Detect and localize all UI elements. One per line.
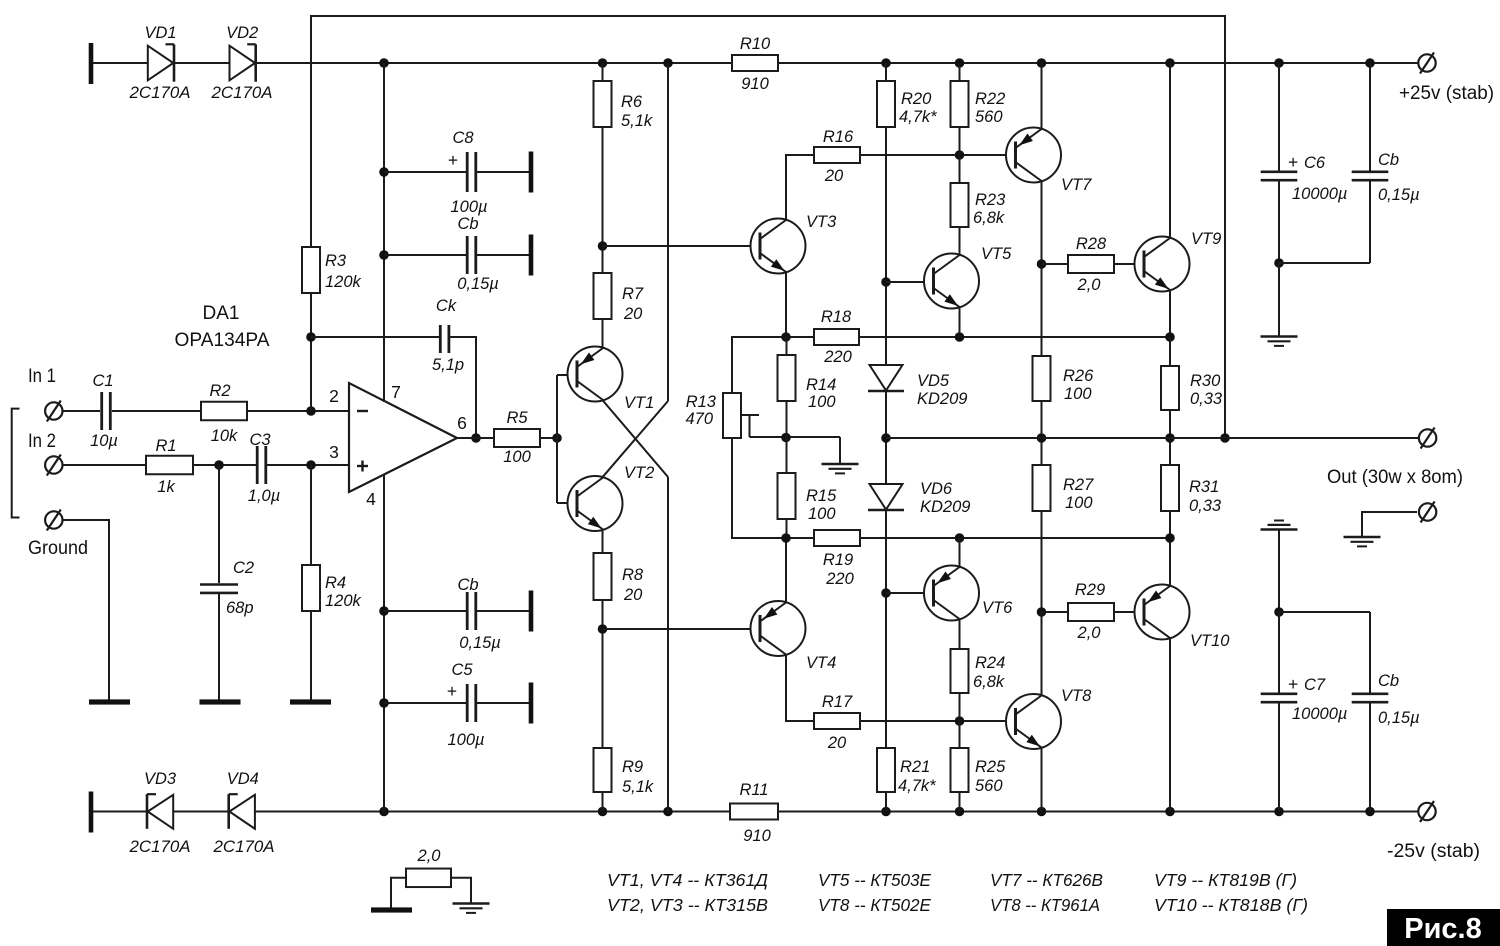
node out-R30 xyxy=(1165,433,1175,443)
terminal bar Cb lower xyxy=(529,591,534,632)
svg-text:Out (30w x 8om): Out (30w x 8om) xyxy=(1327,467,1463,488)
svg-text:VT2, VT3 -- КТ315В: VT2, VT3 -- КТ315В xyxy=(607,895,768,915)
node pin2 xyxy=(306,406,316,416)
svg-text:R8: R8 xyxy=(622,566,644,584)
svg-text:OPA134PA: OPA134PA xyxy=(175,330,270,351)
svg-text:100: 100 xyxy=(1065,494,1093,512)
wire +25V rail right section xyxy=(778,62,1418,64)
wire R29-VT10 xyxy=(1114,611,1144,613)
node Cb2-left xyxy=(379,606,389,616)
svg-text:VT10: VT10 xyxy=(1190,632,1230,650)
svg-text:10000µ: 10000µ xyxy=(1292,185,1347,203)
junction brail-VT10 xyxy=(1165,807,1175,817)
resistor R26 xyxy=(1033,356,1051,401)
wire R30 top xyxy=(1169,337,1171,366)
resistor R25 xyxy=(951,748,969,792)
wire VT6 base xyxy=(886,592,934,594)
svg-text:KD209: KD209 xyxy=(920,498,970,516)
svg-text:Ck: Ck xyxy=(436,297,457,315)
junction rail-Cb xyxy=(1365,58,1375,68)
node pin3 xyxy=(306,460,316,470)
wire C1-R2 xyxy=(112,410,201,412)
transistor VT10 xyxy=(1135,585,1190,640)
svg-text:VT9 -- КТ819В (Г): VT9 -- КТ819В (Г) xyxy=(1154,870,1297,890)
svg-text:100µ: 100µ xyxy=(447,731,484,749)
junction brail-pin4col xyxy=(379,807,389,817)
svg-text:220: 220 xyxy=(825,570,854,588)
node out-R26 xyxy=(1037,433,1047,443)
svg-text:VT1, VT4 -- КТ361Д: VT1, VT4 -- КТ361Д xyxy=(607,870,768,890)
resistor R14 xyxy=(778,355,796,401)
wire Cb3 bottom xyxy=(1369,181,1371,263)
wire R23-VT5 xyxy=(959,227,961,254)
svg-text:VT10 -- КТ818В (Г): VT10 -- КТ818В (Г) xyxy=(1154,895,1308,915)
wire Cb3 top xyxy=(1369,63,1371,171)
wire cross VT2 collector xyxy=(603,401,668,477)
svg-text:2,0: 2,0 xyxy=(417,847,442,865)
resistor R27 xyxy=(1033,465,1051,511)
wire pin3-R4 xyxy=(310,465,312,565)
svg-text:6,8k: 6,8k xyxy=(973,673,1005,691)
svg-text:0,33: 0,33 xyxy=(1189,497,1222,515)
transistor VT2 xyxy=(568,476,623,531)
wire -25V rail right section xyxy=(778,811,1418,813)
wire VT8 collector xyxy=(1041,612,1043,695)
resistor R18 xyxy=(814,329,859,345)
wire R21-rail xyxy=(885,792,887,812)
wire VT7 emitter xyxy=(1041,181,1043,356)
node R18-R14-VT3e xyxy=(781,332,791,342)
svg-text:2C170A: 2C170A xyxy=(128,84,190,102)
wire VT5 emitter xyxy=(959,308,961,337)
svg-text:R18: R18 xyxy=(821,308,852,326)
svg-text:Cb: Cb xyxy=(1378,672,1399,690)
wire VD5-VD6 xyxy=(885,391,887,484)
svg-text:910: 910 xyxy=(743,827,771,845)
wire VT4 collector xyxy=(786,655,814,721)
svg-text:2C170A: 2C170A xyxy=(210,84,272,102)
transistor VT5 xyxy=(924,254,979,309)
wire R17-VT8base xyxy=(860,720,1015,722)
svg-text:VT9: VT9 xyxy=(1191,230,1221,248)
svg-text:R13: R13 xyxy=(686,393,717,411)
wire R4 lower xyxy=(310,611,312,700)
resistor R8 xyxy=(594,553,612,600)
svg-text:R30: R30 xyxy=(1190,372,1221,390)
wire servo right xyxy=(451,878,471,904)
capacitor C1 xyxy=(100,392,103,430)
wire Cb2 right xyxy=(477,610,529,612)
svg-text:100µ: 100µ xyxy=(450,198,487,216)
diode VD5 xyxy=(870,365,903,391)
terminal +25v xyxy=(1418,54,1435,71)
node R6-R7-VT3base xyxy=(598,241,608,251)
node C7-Cb xyxy=(1274,607,1284,617)
ground bias centre xyxy=(822,463,859,465)
resistor R17 xyxy=(814,713,860,729)
wire R7-VT1 xyxy=(602,319,604,349)
svg-text:R6: R6 xyxy=(621,93,643,111)
svg-text:4,7k*: 4,7k* xyxy=(899,108,937,126)
resistor R21 xyxy=(877,748,895,792)
svg-text:20: 20 xyxy=(827,734,847,752)
wire R31-node xyxy=(1169,511,1171,538)
wire VT4 base xyxy=(603,628,761,630)
svg-text:5,1p: 5,1p xyxy=(432,356,464,374)
svg-text:VT8 -- КТ502Е: VT8 -- КТ502Е xyxy=(818,895,931,915)
svg-text:20: 20 xyxy=(824,167,844,185)
transistor VT1 xyxy=(568,347,623,402)
resistor R5 xyxy=(494,429,540,447)
terminal bar +25V input xyxy=(89,43,94,84)
wire VT2-R8 xyxy=(602,530,604,553)
wire R16-VT7base xyxy=(860,154,1015,156)
svg-text:100: 100 xyxy=(503,448,531,466)
svg-text:2,0: 2,0 xyxy=(1077,624,1102,642)
svg-text:R20: R20 xyxy=(901,90,932,108)
svg-text:VT4: VT4 xyxy=(806,654,836,672)
wire Cb4 bottom xyxy=(1369,703,1371,812)
transistor VT7 xyxy=(1006,128,1061,183)
wire VT3 emitter xyxy=(785,273,787,337)
wire feedback top xyxy=(311,16,1225,438)
svg-text:In 2: In 2 xyxy=(28,431,56,452)
node R8-R9-VT4base xyxy=(598,624,608,634)
terminal bar -25V input xyxy=(89,792,94,833)
junction rail-VT9 xyxy=(1165,58,1175,68)
svg-text:120k: 120k xyxy=(325,273,362,291)
node out-fb xyxy=(1220,433,1230,443)
junction rail-C6 xyxy=(1274,58,1284,68)
zener diode VD3 xyxy=(148,795,174,829)
svg-text:R4: R4 xyxy=(325,574,346,592)
wire C6 top xyxy=(1278,63,1280,171)
wire -25V rail left section xyxy=(91,811,730,813)
wire VT8 emitter xyxy=(1041,748,1043,812)
wire pin6 out xyxy=(457,437,494,439)
svg-text:C7: C7 xyxy=(1304,676,1326,694)
capacitor Cb right top xyxy=(1352,171,1389,174)
svg-text:+: + xyxy=(1288,674,1298,694)
wire node-R15 xyxy=(786,437,788,473)
terminal bar Cb top xyxy=(529,235,534,276)
resistor R7 xyxy=(594,273,612,319)
transistor VT3 xyxy=(751,219,806,274)
capacitor Cb right bottom xyxy=(1352,692,1389,695)
svg-text:68p: 68p xyxy=(226,599,254,617)
junction brail-VT8 xyxy=(1037,807,1047,817)
wire cross VT1 collector xyxy=(603,401,668,478)
svg-text:VT5 -- КТ503Е: VT5 -- КТ503Е xyxy=(818,870,931,890)
wire C3-pin3 xyxy=(267,464,349,466)
ground bar C2 xyxy=(200,699,241,704)
wire R9-rail xyxy=(602,792,604,812)
wire VT4 emitter xyxy=(785,538,787,602)
wire R30-out xyxy=(1169,410,1171,465)
svg-text:VD6: VD6 xyxy=(920,480,953,498)
wire VT5 base xyxy=(886,281,934,283)
svg-text:R25: R25 xyxy=(975,758,1006,776)
diode VD6 xyxy=(870,484,903,510)
svg-text:R14: R14 xyxy=(806,376,836,394)
svg-text:470: 470 xyxy=(685,410,713,428)
svg-text:R23: R23 xyxy=(975,191,1006,209)
wire Cb top right xyxy=(477,254,529,256)
svg-text:VD1: VD1 xyxy=(144,24,176,42)
svg-text:VD3: VD3 xyxy=(144,770,177,788)
svg-text:2C170A: 2C170A xyxy=(128,838,190,856)
svg-text:120k: 120k xyxy=(325,592,362,610)
wire C6-Cb bottom link xyxy=(1279,262,1370,264)
wire R26-out xyxy=(1041,401,1043,465)
svg-text:20: 20 xyxy=(623,586,643,604)
junction rail-R22 xyxy=(955,58,965,68)
svg-text:R21: R21 xyxy=(900,758,930,776)
wire R15-R19node xyxy=(786,519,788,538)
svg-text:100: 100 xyxy=(808,505,836,523)
wire ground-down xyxy=(63,520,110,700)
node C6-Cb xyxy=(1274,258,1284,268)
wire C7 gnd stem xyxy=(1278,530,1280,613)
wire R27-VT8 xyxy=(1041,511,1043,612)
wire VT1col lower xyxy=(667,477,669,812)
terminal Out xyxy=(1419,429,1436,446)
wire R19-R31 xyxy=(860,537,1170,539)
resistor R9 xyxy=(594,748,612,792)
node R5 right xyxy=(552,433,562,443)
wire VT9 collector xyxy=(1169,63,1171,238)
svg-text:R27: R27 xyxy=(1063,476,1094,494)
capacitor C2 xyxy=(200,583,238,586)
wire C7 top xyxy=(1278,612,1280,693)
wire R13 wiper to ground xyxy=(750,436,841,438)
resistor R20 xyxy=(877,81,895,127)
svg-text:R5: R5 xyxy=(506,409,528,427)
svg-text:+: + xyxy=(1288,152,1298,172)
wire VT3 collector xyxy=(786,155,814,219)
resistor R15 xyxy=(778,473,796,519)
resistor R19 xyxy=(814,530,860,546)
potentiometer R13 xyxy=(723,393,741,438)
node R29 left xyxy=(1037,607,1047,617)
capacitor Cb top xyxy=(466,236,469,274)
wire R24-node xyxy=(959,693,961,721)
wire R18 row left xyxy=(732,337,814,393)
svg-text:R9: R9 xyxy=(622,758,643,776)
wire VT1 base xyxy=(557,374,577,376)
node R14-R15-wiper xyxy=(781,433,791,443)
capacitor C3 xyxy=(256,446,259,484)
wire pin7 supply xyxy=(383,63,385,402)
svg-text:10µ: 10µ xyxy=(90,432,118,450)
wire pin4 supply xyxy=(383,475,385,812)
node VD5-VD6 output xyxy=(881,433,891,443)
svg-text:VT1: VT1 xyxy=(624,394,654,412)
svg-text:100: 100 xyxy=(808,393,836,411)
svg-text:2: 2 xyxy=(329,386,339,406)
svg-text:VT2: VT2 xyxy=(624,464,654,482)
resistor R29 xyxy=(1068,603,1114,621)
wire R18node-R14 xyxy=(786,337,788,355)
wire VT6-R24 xyxy=(959,620,961,649)
wire R25 top xyxy=(959,721,961,748)
wire R14-node xyxy=(786,401,788,437)
svg-text:-25v (stab): -25v (stab) xyxy=(1387,841,1480,862)
wire C8 right xyxy=(477,171,529,173)
junction rail-R20 xyxy=(881,58,891,68)
wire C5 left xyxy=(384,702,467,704)
wire R25-rail xyxy=(959,792,961,812)
junction brail-R21 xyxy=(881,807,891,817)
svg-text:R24: R24 xyxy=(975,654,1005,672)
svg-text:220: 220 xyxy=(823,348,852,366)
svg-text:+: + xyxy=(447,681,457,701)
ground output xyxy=(1344,536,1381,538)
svg-text:+: + xyxy=(448,150,458,170)
node R3-Ck xyxy=(306,332,316,342)
svg-text:R22: R22 xyxy=(975,90,1005,108)
wire out gnd xyxy=(1362,512,1417,537)
wire VT2 base xyxy=(557,502,577,504)
wire R1-C3 xyxy=(193,464,256,466)
wire VT2col upper xyxy=(667,63,669,401)
node R30 top xyxy=(1165,332,1175,342)
svg-text:C5: C5 xyxy=(451,661,473,679)
resistor R31 xyxy=(1161,465,1179,511)
node R19-R15-VT4e xyxy=(781,533,791,543)
node Ck-out xyxy=(471,433,481,443)
svg-text:VT8 -- КТ961А: VT8 -- КТ961А xyxy=(990,895,1100,915)
resistor R6 xyxy=(594,81,612,127)
wire VD6-R21 xyxy=(885,510,887,748)
wire Cb4 top xyxy=(1369,612,1371,693)
ground bar input xyxy=(89,699,130,704)
node R17-R24 xyxy=(955,716,965,726)
resistor R2 xyxy=(201,402,247,421)
ground servo xyxy=(453,902,490,904)
svg-text:VT6: VT6 xyxy=(982,599,1013,617)
terminal In 1 xyxy=(45,402,62,419)
svg-text:Cb: Cb xyxy=(1378,151,1399,169)
transistor VT6 xyxy=(924,566,979,621)
wire C5 right xyxy=(477,702,529,704)
junction brail-C7 xyxy=(1274,807,1284,817)
svg-text:VD4: VD4 xyxy=(227,770,259,788)
svg-text:2C170A: 2C170A xyxy=(212,838,274,856)
wire Ck right xyxy=(450,337,476,438)
resistor 2.0 bottom xyxy=(406,869,451,888)
wire R29 left xyxy=(1042,611,1069,613)
svg-text:+25v (stab): +25v (stab) xyxy=(1399,83,1494,104)
resistor R3 xyxy=(302,247,320,293)
svg-text:1,0µ: 1,0µ xyxy=(248,487,280,505)
svg-text:C6: C6 xyxy=(1304,154,1326,172)
svg-text:20: 20 xyxy=(623,305,643,323)
zener diode VD2 xyxy=(230,46,256,81)
resistor R24 xyxy=(951,649,969,693)
svg-text:560: 560 xyxy=(975,777,1003,795)
svg-text:KD209: KD209 xyxy=(917,390,967,408)
svg-text:Cb: Cb xyxy=(457,576,478,594)
svg-text:R16: R16 xyxy=(823,128,854,146)
zener diode VD4 xyxy=(229,795,255,829)
svg-text:4,7k*: 4,7k* xyxy=(898,777,936,795)
node R18-VT5e xyxy=(955,332,965,342)
zener diode VD1 xyxy=(148,46,174,81)
wire VT6 collector xyxy=(959,538,961,566)
wire C6 bottom xyxy=(1278,181,1280,263)
svg-text:DA1: DA1 xyxy=(203,303,240,324)
wire bias gnd stem xyxy=(839,437,841,464)
terminal bar servo xyxy=(371,907,412,912)
resistor R11 xyxy=(730,804,778,820)
node VT6 base node xyxy=(881,588,891,598)
resistor R30 xyxy=(1161,366,1179,410)
wire Ck left xyxy=(311,336,440,338)
svg-text:Рис.8: Рис.8 xyxy=(1404,913,1481,945)
svg-text:VD5: VD5 xyxy=(917,372,950,390)
svg-text:R29: R29 xyxy=(1075,581,1105,599)
junction brail-R9 xyxy=(598,807,608,817)
wire base column VT1 VT2 xyxy=(556,375,558,503)
transistor VT4 xyxy=(751,601,806,656)
input group bracket xyxy=(12,409,20,518)
terminal bar C8 xyxy=(529,152,534,193)
svg-text:910: 910 xyxy=(741,75,769,93)
svg-text:4: 4 xyxy=(366,489,376,509)
terminal Ground xyxy=(45,511,62,528)
junction rail-VT2col xyxy=(663,58,673,68)
terminal bar C5 xyxy=(529,683,534,724)
svg-text:VT7 -- КТ626В: VT7 -- КТ626В xyxy=(990,870,1103,890)
node R16-R23 xyxy=(955,150,965,160)
junction brail-VT1col xyxy=(663,807,673,817)
wire rail-R6 xyxy=(602,63,604,81)
ground bar R4 xyxy=(290,699,331,704)
resistor R22 xyxy=(951,81,969,127)
svg-text:7: 7 xyxy=(391,382,401,402)
node C5-left xyxy=(379,698,389,708)
wire C8 left xyxy=(384,171,467,173)
svg-text:6,8k: 6,8k xyxy=(973,209,1005,227)
terminal -25v xyxy=(1418,803,1435,820)
wire C2 upper xyxy=(218,465,220,583)
wire C2 lower xyxy=(218,594,220,700)
wire Cb2 left xyxy=(384,610,467,612)
ground inverted above C7 xyxy=(1261,528,1298,530)
junction rail-R3col xyxy=(379,58,389,68)
svg-text:0,15µ: 0,15µ xyxy=(459,634,501,652)
wire VT9 emitter xyxy=(1169,290,1171,337)
capacitor C8 xyxy=(466,152,469,192)
wire fb-R3 xyxy=(310,63,312,247)
svg-text:VT8: VT8 xyxy=(1061,687,1092,705)
svg-text:R28: R28 xyxy=(1076,235,1107,253)
svg-text:0,15µ: 0,15µ xyxy=(1378,186,1420,204)
svg-text:R17: R17 xyxy=(822,693,853,711)
node R1-C2 xyxy=(214,460,224,470)
svg-text:C1: C1 xyxy=(92,372,113,390)
resistor R4 xyxy=(302,565,320,611)
svg-text:10k: 10k xyxy=(211,427,238,445)
wire R28-VT9 xyxy=(1114,263,1144,265)
terminal In 2 xyxy=(45,456,62,473)
capacitor C7 xyxy=(1261,692,1298,695)
wire R19 row left xyxy=(732,438,814,538)
svg-text:0,33: 0,33 xyxy=(1190,390,1223,408)
svg-text:560: 560 xyxy=(975,108,1003,126)
svg-text:R7: R7 xyxy=(622,285,644,303)
